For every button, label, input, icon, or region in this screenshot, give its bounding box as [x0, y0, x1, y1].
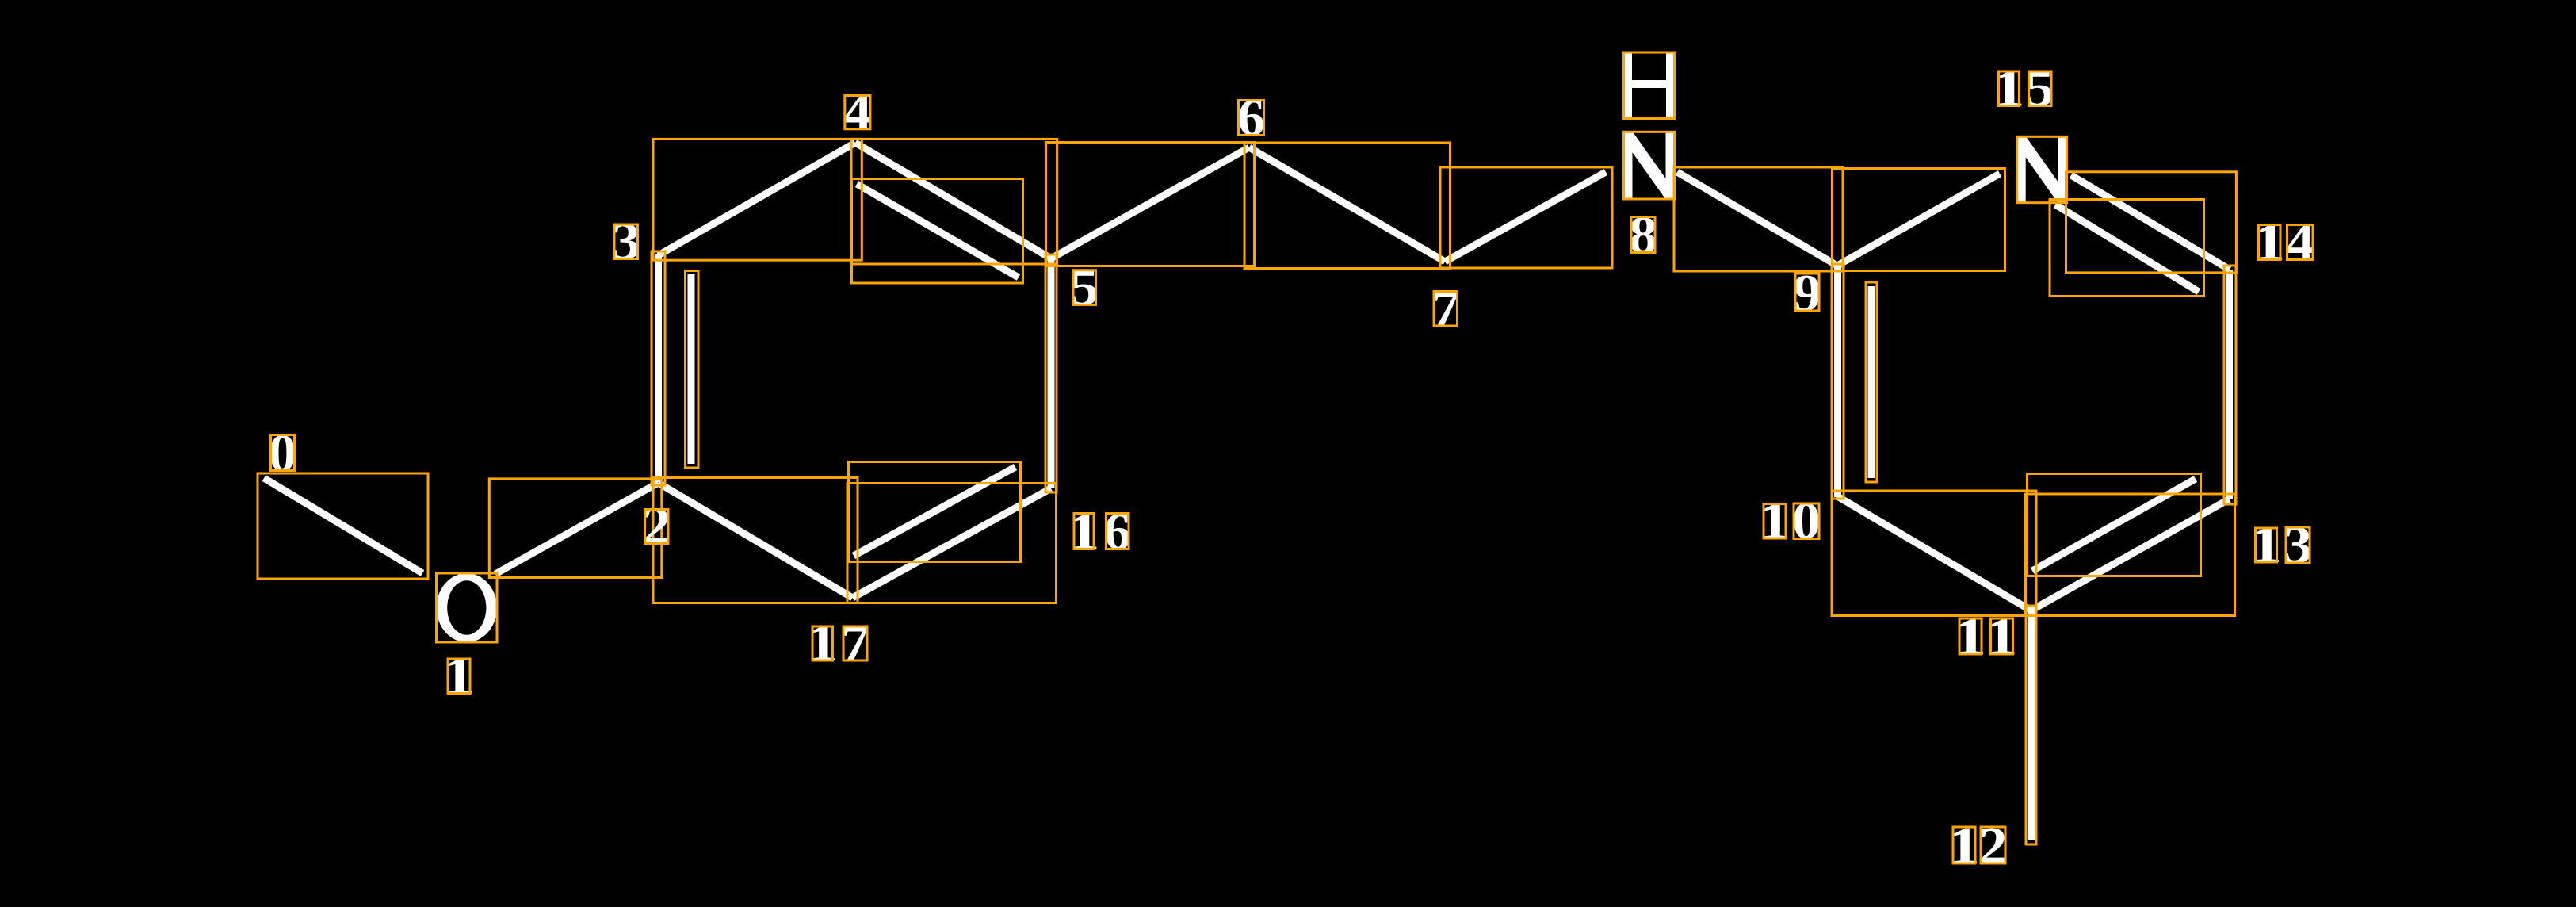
svg-text:5: 5: [1070, 258, 1099, 317]
atom N8 N glyph: [1624, 132, 1675, 199]
svg-text:3: 3: [611, 212, 640, 271]
box bond 1-2: [489, 479, 662, 578]
bond 14-15 main: [2071, 175, 2230, 270]
box label 16: [1074, 514, 1094, 549]
box bond 7-8: [1440, 167, 1612, 268]
label 10: [1759, 492, 1821, 550]
box label 0: [271, 435, 295, 471]
bond 6-7: [1249, 147, 1445, 262]
box label 1: [448, 659, 470, 694]
label 4: [843, 82, 873, 141]
bond 4-5 inner: [857, 184, 1019, 277]
bond 11-13 main: [2031, 499, 2230, 611]
box atom H8: [1624, 52, 1675, 119]
box bond 9-10 main: [1832, 264, 1844, 499]
box bond 2-3 inner: [686, 271, 699, 469]
bond 2-3 inner: [688, 274, 695, 464]
svg-text:3: 3: [2284, 516, 2313, 575]
bond 7-8: [1445, 172, 1606, 262]
svg-text:6: 6: [1103, 502, 1131, 561]
box bond 16-17 inner: [849, 462, 1021, 562]
box atom N8: [1624, 132, 1675, 199]
box bond 9-10 inner: [1866, 282, 1877, 482]
svg-text:6: 6: [1237, 88, 1265, 147]
bond 4-5 main: [855, 143, 1051, 258]
label 14: [2253, 213, 2314, 272]
box bond 11-12: [2026, 606, 2036, 844]
box label 7: [1434, 292, 1458, 327]
box label 15: [1999, 71, 2020, 106]
svg-text:0: 0: [1792, 492, 1821, 550]
label 9: [1793, 264, 1821, 323]
label 7: [1431, 279, 1460, 338]
label 3: [611, 212, 640, 271]
svg-text:5: 5: [2026, 59, 2054, 118]
atom N15 glyph: [2017, 136, 2067, 202]
svg-text:8: 8: [1629, 206, 1657, 265]
label 17: [807, 614, 869, 672]
bond 11-12: [2028, 610, 2035, 840]
box bond 4-5 main: [851, 139, 1057, 264]
svg-text:1: 1: [1068, 503, 1099, 561]
box bond 14-15 main: [2066, 172, 2237, 273]
box label 9: [1795, 274, 1819, 311]
label 0: [268, 424, 296, 483]
box bond 17-2: [653, 478, 858, 603]
bond 15-9: [1837, 174, 2000, 266]
bond 11-13 inner: [2032, 479, 2196, 571]
bond 17-2: [659, 483, 853, 598]
label 15: [1993, 59, 2054, 118]
box bond 14-15 inner: [2050, 200, 2204, 297]
bond 3-4: [659, 143, 856, 255]
box label 6: [1239, 101, 1264, 136]
label 8: [1629, 206, 1657, 265]
box bond 6-7: [1244, 143, 1450, 269]
box label 12: [1953, 827, 1975, 863]
box bond 0-1: [258, 473, 428, 579]
box bond 5-6: [1046, 143, 1255, 266]
box bond 11-13 main: [2026, 494, 2235, 616]
label 1: [443, 647, 475, 706]
svg-text:0: 0: [268, 424, 296, 483]
box label 14: [2259, 225, 2281, 260]
box bond 3-4: [653, 139, 862, 260]
box label 5: [1073, 270, 1096, 305]
box bond 10-11: [1832, 491, 2036, 616]
bond 0-1: [264, 478, 422, 573]
box label 11: [1959, 618, 1982, 654]
label 6: [1237, 88, 1265, 147]
box label 17: [812, 626, 833, 660]
label 2: [642, 497, 671, 556]
bond 8-9: [1677, 172, 1837, 266]
box bond 8-9: [1674, 167, 1843, 271]
bond 9-10 inner: [1868, 286, 1875, 478]
atom O1 glyph: [437, 573, 497, 642]
box label 4: [845, 96, 870, 129]
svg-text:7: 7: [1431, 279, 1460, 338]
box label 2: [645, 510, 669, 544]
label 13: [2250, 515, 2313, 575]
svg-text:4: 4: [843, 82, 873, 141]
box bond 4-5 inner: [852, 179, 1023, 284]
box label 3: [614, 224, 638, 259]
bond 10-11: [1837, 496, 2031, 610]
bond 16-17 inner: [854, 467, 1015, 556]
label 11: [1955, 607, 2018, 666]
bond 14-15 inner: [2055, 205, 2199, 292]
svg-text:4: 4: [2285, 213, 2314, 272]
box atom O1: [437, 573, 498, 642]
box label 13: [2256, 528, 2277, 562]
atom N8 H glyph: [1624, 52, 1675, 119]
label 5: [1070, 258, 1099, 317]
box bond 16-17 main: [847, 484, 1057, 603]
box bond 2-3 main: [652, 251, 665, 485]
box atom N15: [2017, 136, 2067, 202]
svg-text:7: 7: [841, 614, 869, 672]
bond 13-14: [2226, 270, 2233, 499]
box bond 11-13 inner: [2028, 474, 2201, 576]
label 16: [1068, 502, 1131, 561]
svg-text:2: 2: [642, 497, 671, 556]
bond 5-6: [1051, 147, 1249, 258]
svg-text:2: 2: [1978, 817, 2007, 875]
bond 9-10 main: [1834, 266, 1841, 497]
bond 5-16: [1048, 258, 1055, 488]
box label 8: [1631, 217, 1655, 253]
bond 1-2: [495, 483, 659, 574]
box bond 5-16: [1045, 254, 1057, 492]
box bond 9-15: [1833, 169, 2005, 271]
box bond 13-14: [2224, 266, 2236, 504]
bond 16-17 main: [853, 488, 1052, 598]
bond 2-3 main: [655, 254, 662, 482]
label 12: [1948, 817, 2008, 875]
box label 10: [1764, 504, 1786, 539]
